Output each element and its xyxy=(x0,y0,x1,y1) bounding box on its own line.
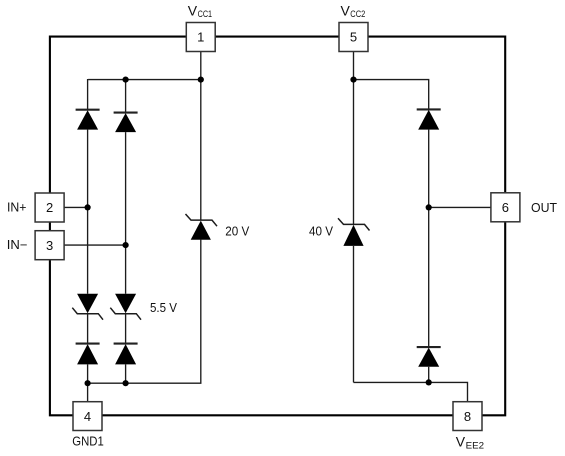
svg-text:EE2: EE2 xyxy=(466,441,485,451)
pin 4 box xyxy=(73,402,102,431)
wire bottom-left bus xyxy=(88,240,201,384)
svg-text:6: 6 xyxy=(502,200,509,215)
junction dot pin6 to column C xyxy=(426,204,432,210)
svg-text:5: 5 xyxy=(350,30,357,45)
pin 8 box xyxy=(453,402,482,431)
wire pin2 stub xyxy=(64,206,88,208)
svg-text:1: 1 xyxy=(197,30,204,45)
svg-text:IN+: IN+ xyxy=(7,201,27,215)
pin 5 box xyxy=(339,23,368,52)
wire column A middle xyxy=(87,130,89,294)
diode D6 xyxy=(114,344,138,365)
junction dot pin3 to column B xyxy=(123,242,129,248)
svg-text:5.5 V: 5.5 V xyxy=(150,300,177,315)
wire pin1 to zener Z1 xyxy=(200,52,202,220)
wire column A lower to pin 4 xyxy=(87,364,89,401)
wire pin5 to zener Z2 xyxy=(353,52,355,225)
svg-text:V: V xyxy=(188,3,198,19)
wire bottom-right bus to pin 8 xyxy=(354,382,468,402)
svg-text:8: 8 xyxy=(464,409,471,424)
junction dot column C bottom bus xyxy=(426,379,432,385)
pin 6 box xyxy=(491,193,520,222)
zener diode Z1 20 V xyxy=(186,214,218,240)
wire column B lower xyxy=(125,364,127,383)
wire top-right horizontal bus xyxy=(354,80,429,109)
junction dot at pin1 column and top-left bus xyxy=(198,77,204,83)
wire column C middle xyxy=(428,130,430,347)
wire column B between zener Z4 and diode D6 xyxy=(125,314,127,343)
wire zener Z2 to bottom-right bus xyxy=(353,246,355,382)
diode D4 xyxy=(417,347,441,367)
wire pin3 stub xyxy=(64,244,126,246)
svg-text:40 V: 40 V xyxy=(309,224,333,239)
wire column B middle xyxy=(125,132,127,294)
diode D3 xyxy=(417,109,441,129)
junction dot column B bottom bus xyxy=(123,380,129,386)
zener diode Z2 40 V xyxy=(338,218,370,246)
zener diode Z3 5.5 V xyxy=(72,294,103,320)
diode D5 xyxy=(76,344,100,365)
diode D2 xyxy=(114,113,138,133)
IC package boundary xyxy=(50,37,505,416)
pin 2 box xyxy=(35,193,64,222)
wire pin6 stub xyxy=(429,206,491,208)
svg-text:CC1: CC1 xyxy=(198,9,213,19)
diode D1 xyxy=(76,110,100,130)
pin 3 box xyxy=(35,231,64,260)
svg-text:4: 4 xyxy=(84,409,91,424)
pin 1 box xyxy=(186,23,215,52)
junction dot pin5 column and top-right bus xyxy=(350,77,356,83)
junction dot column B top xyxy=(123,77,129,83)
svg-text:IN−: IN− xyxy=(7,238,28,252)
svg-text:V: V xyxy=(456,433,466,449)
svg-text:3: 3 xyxy=(46,238,53,253)
svg-text:CC2: CC2 xyxy=(350,9,365,19)
svg-text:2: 2 xyxy=(46,200,53,215)
svg-text:GND1: GND1 xyxy=(72,435,104,449)
svg-text:20 V: 20 V xyxy=(225,223,249,238)
wire column B upper xyxy=(125,79,127,112)
junction dot pin2 to column A xyxy=(85,204,91,210)
wire column C lower xyxy=(428,367,430,383)
wire column A between zener Z3 and diode D5 xyxy=(87,314,89,343)
svg-text:V: V xyxy=(341,3,351,19)
wire column A upper xyxy=(87,79,89,109)
svg-text:OUT: OUT xyxy=(531,201,557,215)
junction dot column A bottom bus xyxy=(85,380,91,386)
wire top-left horizontal bus xyxy=(88,79,201,81)
zener diode Z4 5.5 V xyxy=(110,294,141,320)
